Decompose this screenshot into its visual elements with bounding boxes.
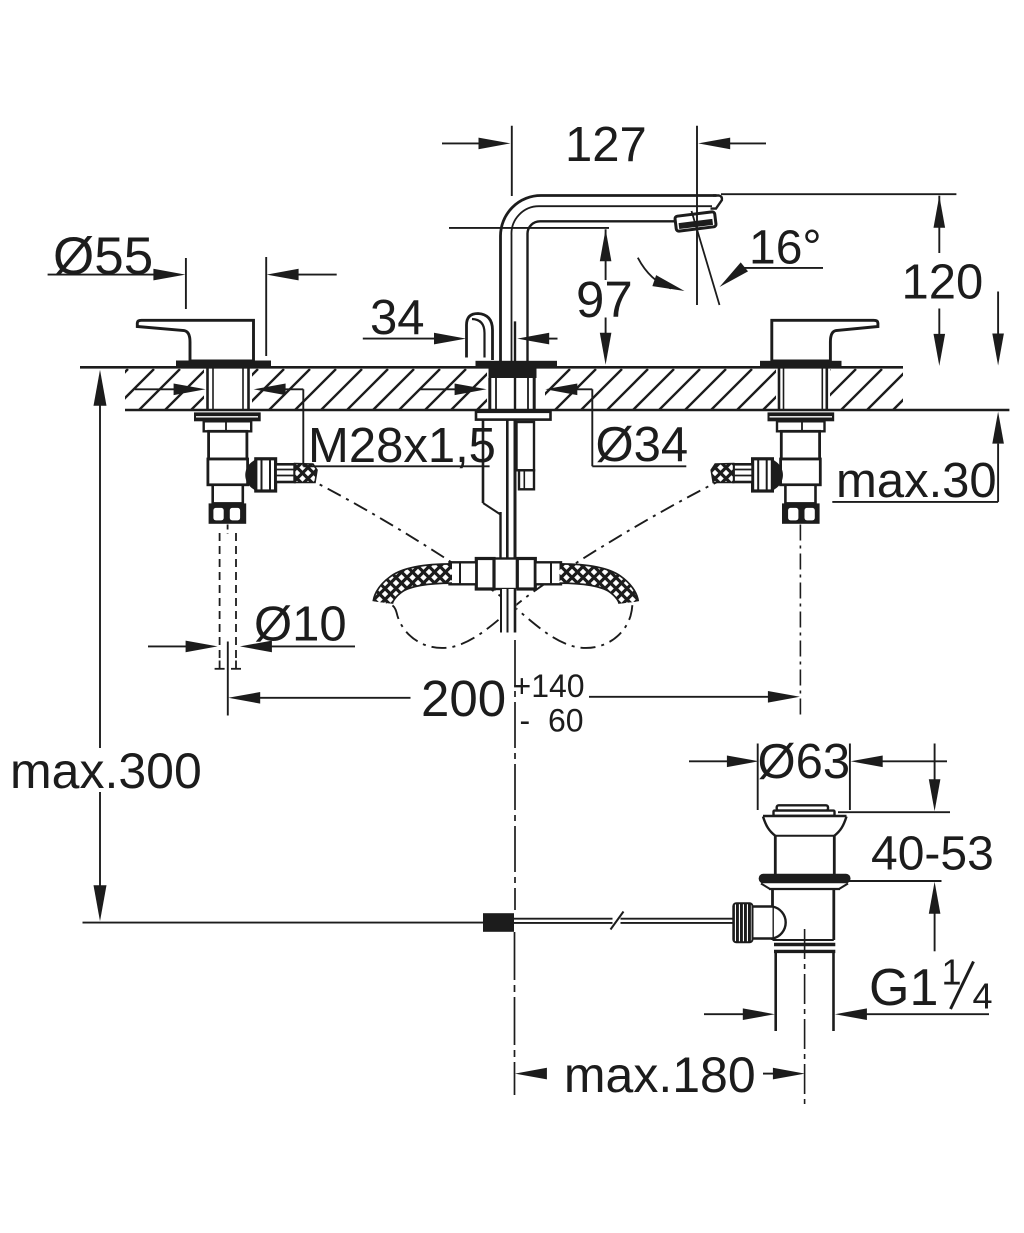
- svg-text:40-53: 40-53: [871, 828, 994, 881]
- svg-text:Ø55: Ø55: [53, 227, 153, 286]
- svg-text:4: 4: [973, 976, 993, 1017]
- svg-text:- 60: - 60: [520, 703, 584, 739]
- svg-text:+140: +140: [513, 668, 585, 704]
- svg-text:max.180: max.180: [564, 1047, 756, 1103]
- svg-text:200: 200: [421, 670, 506, 727]
- svg-text:120: 120: [902, 256, 984, 310]
- svg-text:Ø34: Ø34: [596, 418, 689, 472]
- svg-text:max.30: max.30: [836, 454, 997, 508]
- svg-text:127: 127: [565, 118, 647, 172]
- svg-text:Ø63: Ø63: [758, 735, 851, 789]
- svg-text:1: 1: [942, 952, 962, 993]
- svg-text:97: 97: [576, 271, 633, 328]
- svg-text:34: 34: [370, 291, 425, 345]
- svg-text:Ø10: Ø10: [254, 598, 347, 652]
- svg-text:G1: G1: [869, 959, 938, 1017]
- svg-text:M28x1,5: M28x1,5: [308, 419, 496, 473]
- svg-text:16°: 16°: [749, 222, 822, 275]
- svg-text:max.300: max.300: [10, 743, 202, 799]
